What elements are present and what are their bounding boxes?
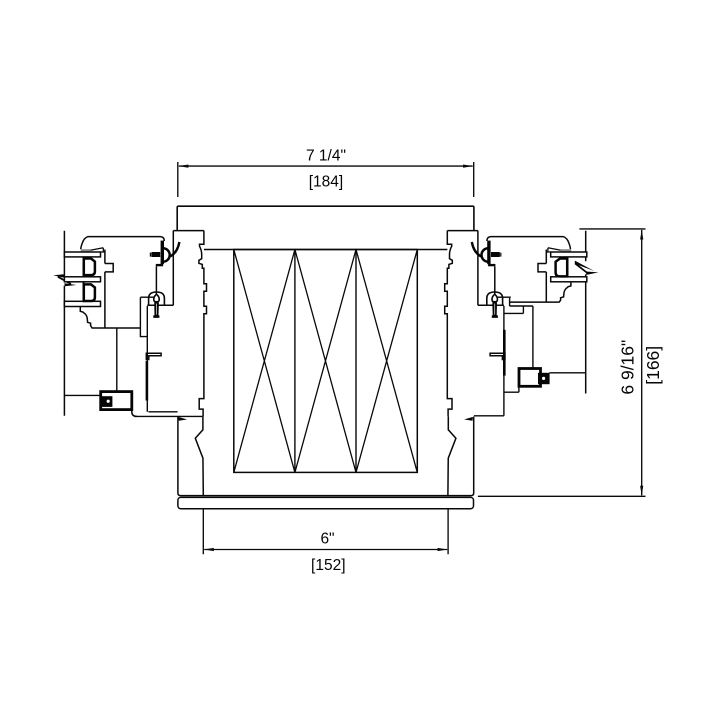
svg-text:7 1/4": 7 1/4" <box>306 147 346 164</box>
bottom plate <box>178 497 474 508</box>
left bracket inner edge with tab <box>105 250 113 329</box>
right corner stub <box>509 298 511 306</box>
svg-text:[152]: [152] <box>311 557 345 574</box>
svg-text:6 9/16": 6 9/16" <box>617 340 637 395</box>
svg-text:[166]: [166] <box>643 346 663 385</box>
right spring clip D1 <box>566 258 568 278</box>
body lower walls and bottom <box>178 417 474 496</box>
svg-text:6": 6" <box>320 531 334 548</box>
left gray gasket bar <box>81 249 91 252</box>
left junction line <box>64 394 100 396</box>
right bracket inner edge with tab <box>538 250 546 302</box>
left wall line <box>63 231 65 416</box>
left flange bar 1 <box>64 252 100 257</box>
svg-text:[184]: [184] <box>309 173 343 190</box>
right junction line <box>549 372 585 374</box>
left break mark <box>53 274 65 278</box>
left strap <box>146 361 149 401</box>
bottom dimension 6 inch <box>203 506 448 554</box>
right box step and rails <box>474 386 519 416</box>
filter X braces <box>234 250 417 473</box>
right dimension 6 9/16 inch <box>478 229 646 496</box>
right hanger verticals <box>503 306 505 416</box>
right strap <box>503 330 506 376</box>
left box step <box>132 409 137 417</box>
left junction box <box>101 392 132 410</box>
left spring clip D1 <box>83 258 85 277</box>
right break mark <box>575 261 594 271</box>
left flange bar 2 <box>64 277 100 282</box>
right bracket staircase <box>510 282 571 303</box>
right flange bar 2 <box>551 277 587 282</box>
filter core <box>234 250 417 473</box>
left hanger verticals <box>116 329 118 392</box>
left bracket staircase <box>80 307 140 328</box>
right mid links <box>504 306 533 369</box>
left lower rails <box>135 412 203 417</box>
left flag <box>178 417 187 421</box>
left spring clip D2 <box>83 282 85 301</box>
right frame assembly (mirrored) <box>445 231 571 496</box>
right wall line <box>585 231 587 394</box>
right junction box <box>519 369 541 387</box>
right gray gasket bar <box>561 249 571 252</box>
right flag <box>464 417 473 421</box>
top dimension 7 1/4 inch <box>178 162 474 197</box>
right flange bar 1 <box>551 252 587 257</box>
body top plate <box>177 206 474 230</box>
left frame assembly <box>81 231 207 496</box>
left flange bar 3 <box>64 301 100 306</box>
